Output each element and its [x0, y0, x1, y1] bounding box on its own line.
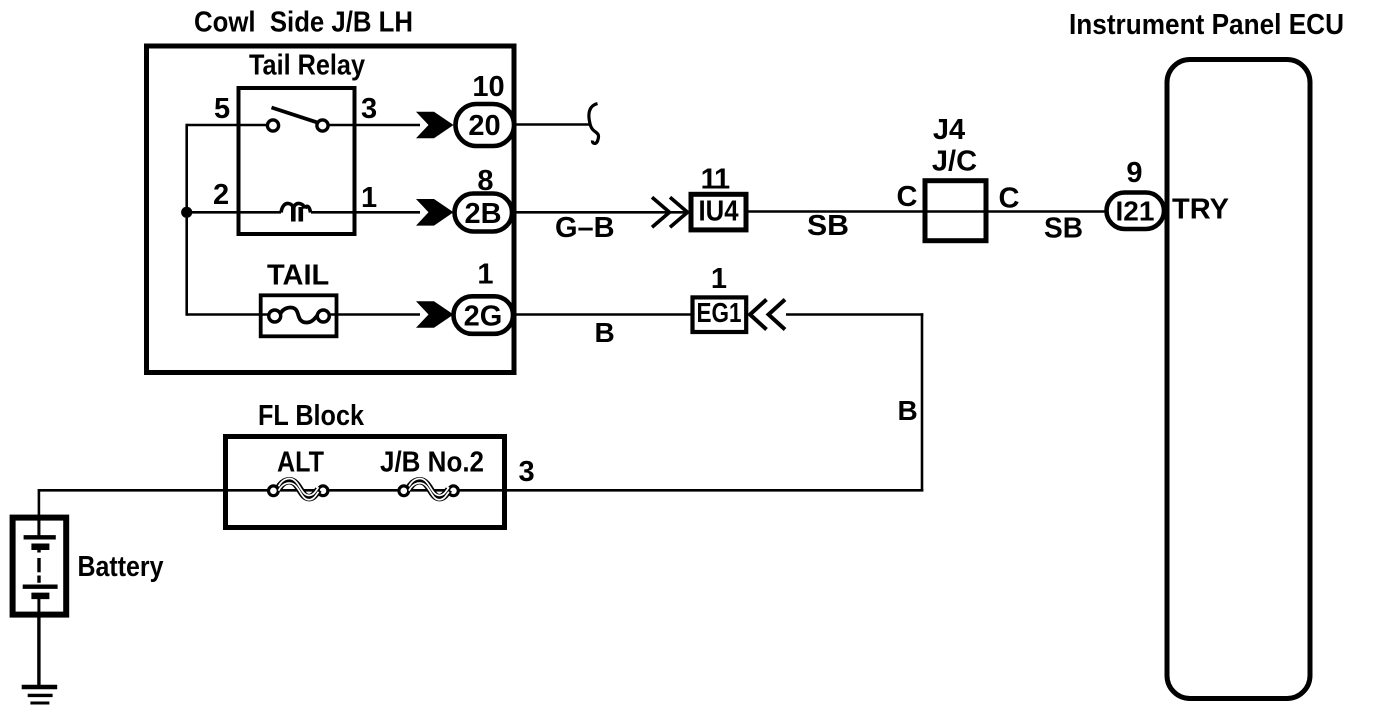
- battery plate long top: [24, 535, 56, 539]
- wire row2 from IU4 through J4 J/C to I21: [748, 210, 1108, 213]
- connector arrow row1: [416, 112, 454, 139]
- svg-text:3: 3: [361, 93, 377, 125]
- junction node dot: [181, 207, 192, 218]
- connector arrow row3: [416, 301, 454, 328]
- wire battery top lead: [38, 489, 41, 537]
- svg-text:20: 20: [468, 110, 500, 142]
- svg-text:TAIL: TAIL: [267, 260, 329, 292]
- svg-text:1: 1: [477, 259, 493, 291]
- battery plate long bottom: [23, 585, 58, 589]
- wire row1 from switch to arrow: [327, 124, 420, 127]
- ground symbol: [22, 687, 58, 703]
- svg-text:1: 1: [714, 164, 730, 196]
- svg-text:Battery: Battery: [78, 551, 164, 583]
- wire left vertical from row1 to row3: [185, 124, 188, 316]
- svg-text:IU4: IU4: [699, 196, 739, 228]
- svg-text:2G: 2G: [464, 301, 503, 333]
- battery internal lead top: [37, 518, 40, 537]
- fusible link block FL Block box: [226, 437, 505, 528]
- wire row3 from oval 2G to EG1: [510, 313, 692, 316]
- connector EG1 box: [693, 297, 747, 332]
- battery cell stub: [37, 547, 40, 553]
- battery dashed cell line: [37, 558, 40, 572]
- svg-text:2: 2: [213, 179, 229, 211]
- svg-text:J/C: J/C: [932, 146, 977, 178]
- wire row1 from left vertical to switch: [187, 124, 268, 127]
- battery plate short top: [31, 544, 49, 551]
- fusible link ALT: [269, 479, 328, 500]
- wire row1 from oval 20 to open end: [512, 123, 590, 126]
- svg-text:EG1: EG1: [697, 297, 742, 328]
- connector oval 20 (pin 10): [456, 104, 515, 146]
- junction connector J4 J/C box: [925, 181, 986, 241]
- relay box Tail Relay: [239, 88, 355, 234]
- battery plate short bottom: [31, 593, 49, 600]
- svg-text:J4: J4: [933, 114, 965, 146]
- svg-text:2B: 2B: [464, 198, 501, 230]
- svg-text:9: 9: [1126, 157, 1142, 189]
- svg-text:ALT: ALT: [277, 447, 324, 479]
- svg-text:8: 8: [477, 165, 493, 197]
- svg-text:SB: SB: [807, 210, 849, 242]
- svg-text:B: B: [898, 395, 918, 426]
- wire row3 inside fuse box: [329, 313, 420, 316]
- wire row2 from coil to arrow: [311, 211, 420, 214]
- switch contact right (pin 3): [317, 120, 328, 131]
- wire battery to ground: [37, 614, 40, 687]
- svg-text:C: C: [999, 183, 1020, 215]
- fuse TAIL box: [261, 295, 337, 336]
- svg-text:C: C: [897, 181, 918, 213]
- svg-text:G–B: G–B: [555, 212, 615, 244]
- svg-text:I21: I21: [1116, 196, 1155, 227]
- female connector chevrons after EG1: [750, 300, 785, 330]
- connector oval I21 (pin 9): [1107, 193, 1165, 230]
- svg-text:SB: SB: [1044, 213, 1083, 245]
- svg-text:3: 3: [519, 456, 535, 488]
- battery internal lead bottom: [37, 596, 40, 618]
- connector IU4 box: [691, 194, 746, 230]
- switch blade: [272, 108, 317, 123]
- wire row2 from oval 2B to IU4 chevrons: [510, 211, 688, 214]
- male connector chevrons into IU4: [652, 197, 688, 227]
- connector arrow row2: [416, 199, 454, 226]
- svg-text:1: 1: [361, 182, 377, 214]
- wire row4 bottom horizontal: [39, 489, 923, 492]
- relay coil: [281, 203, 311, 221]
- svg-text:FL Block: FL Block: [258, 400, 365, 432]
- wire vertical down to row4: [921, 313, 924, 491]
- svg-text:Tail Relay: Tail Relay: [249, 50, 365, 82]
- fuse TAIL element: [269, 308, 330, 323]
- connector oval 2G (pin 1): [454, 296, 514, 334]
- junction block Cowl Side J/B LH box: [147, 46, 515, 373]
- wire row3 from EG1 chevrons to vertical: [786, 313, 923, 316]
- switch contact left (pin 5): [267, 120, 278, 131]
- battery box: [13, 518, 67, 615]
- svg-text:10: 10: [472, 71, 504, 103]
- svg-text:1: 1: [711, 263, 727, 295]
- svg-text:5: 5: [214, 93, 230, 125]
- svg-text:J/B No.2: J/B No.2: [380, 447, 484, 479]
- connector oval 2B (pin 8): [455, 194, 513, 232]
- svg-text:B: B: [595, 317, 615, 348]
- wire row2 from junction to coil: [187, 211, 281, 214]
- wire row3 from left vertical to TAIL fuse: [187, 313, 269, 316]
- svg-text:TRY: TRY: [1172, 194, 1229, 226]
- ECU Instrument Panel ECU box: [1167, 60, 1310, 699]
- svg-text:Instrument Panel ECU: Instrument Panel ECU: [1069, 9, 1344, 41]
- svg-text:Cowl Side J/B LH: Cowl Side J/B LH: [194, 7, 413, 39]
- fusible link J/B No.2: [399, 479, 458, 500]
- open wire end squiggle: [589, 104, 599, 144]
